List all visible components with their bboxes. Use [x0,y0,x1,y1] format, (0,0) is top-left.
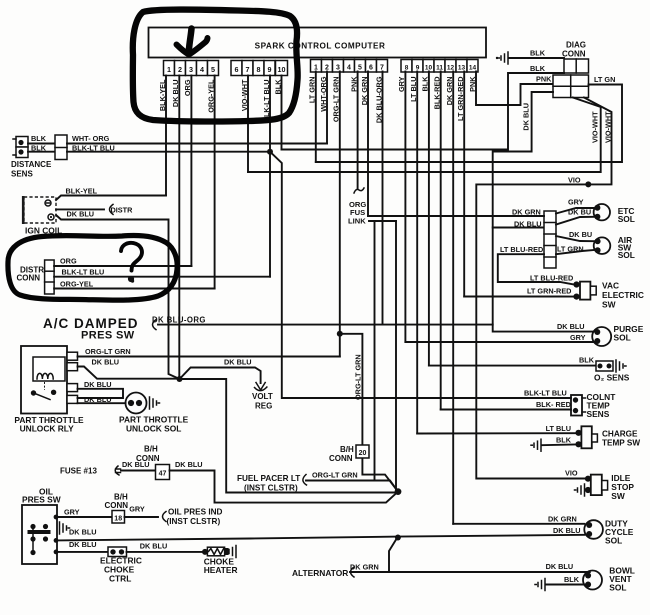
svg-text:DK GRN: DK GRN [350,563,379,572]
svg-text:DK BLU: DK BLU [84,380,112,389]
svg-text:DK BLU: DK BLU [69,540,97,549]
connector A pins 1-10 [164,61,175,76]
svg-text:7: 7 [380,64,384,71]
svg-text:10: 10 [425,64,433,71]
distance sensor connector [16,137,28,148]
svg-text:1: 1 [167,65,171,74]
svg-text:GRY: GRY [570,333,586,342]
node DK BLU junction [177,376,183,382]
svg-text:BLK: BLK [31,134,47,143]
svg-text:BLK: BLK [556,436,572,445]
wire VIO-WHT 1 [248,98,601,173]
svg-text:LT BLU: LT BLU [546,424,571,433]
wire BLK bowl [535,579,545,591]
svg-text:(INST CLSTR): (INST CLSTR) [244,484,298,493]
wire pin B11 BLK-RED [440,72,442,410]
svg-text:ORG-YEL: ORG-YEL [60,279,94,288]
wire DK BLU to volt reg [180,368,261,384]
PURGE solenoid [592,327,611,346]
svg-text:CONN: CONN [17,274,41,283]
wire pin B9 LT BLU [416,72,418,434]
svg-text:OIL PRES IND: OIL PRES IND [168,508,223,517]
B/H conn 18 [112,511,125,524]
svg-text:GRY: GRY [129,505,145,514]
svg-text:ORG-LT GRN: ORG-LT GRN [312,471,358,480]
svg-text:3: 3 [189,65,193,74]
wire pin B13 LT GRN-RED [463,72,465,297]
wire BLK distance sens 2 [28,151,55,153]
svg-text:REG: REG [255,402,272,411]
svg-text:GRY: GRY [64,508,80,517]
svg-text:BLK: BLK [579,356,595,365]
wire DK BLU relay loop [78,389,124,398]
node VIO junction [585,181,591,187]
svg-text:SW: SW [602,300,616,310]
svg-text:8: 8 [257,65,261,74]
wire pin A1 BLK-YEL [165,76,167,196]
svg-text:VIO-WHT: VIO-WHT [604,111,613,143]
ground at diag BLK [498,52,508,64]
svg-text:ALTERNATOR: ALTERNATOR [292,568,348,578]
svg-text:SOL: SOL [618,250,635,260]
svg-text:HEATER: HEATER [204,565,238,575]
svg-text:BLK: BLK [564,575,580,584]
wire DK BLU oil pres long [54,538,59,543]
wire LT GRN-RED pin B13 to vac sw [464,296,574,298]
svg-text:TEMP SW: TEMP SW [602,439,640,448]
svg-text:DK BLU: DK BLU [522,103,531,131]
svg-text:UNLOCK SOL: UNLOCK SOL [126,424,181,434]
wire DK BLU oil pres to choke [54,550,59,555]
wire WHT-ORG [67,143,327,145]
wire BLK-YEL ign coil [56,196,166,201]
node fuel pacer junction [395,488,402,495]
wire ORG-LT GRN fuel pacer [306,480,375,482]
node ORG-LT GRN junction [337,331,343,337]
svg-text:SENS: SENS [587,409,610,419]
svg-text:DK BU: DK BU [569,230,592,239]
svg-text:DK GRN: DK GRN [548,515,577,524]
svg-text:SOL: SOL [618,214,635,224]
svg-text:LT GRN: LT GRN [557,245,584,254]
svg-text:BLK-YEL: BLK-YEL [66,187,98,196]
svg-text:DK BLU: DK BLU [546,562,574,571]
svg-text:47: 47 [159,471,167,478]
svg-text:12: 12 [447,64,455,71]
svg-text:B/H: B/H [340,445,354,454]
wire pin A2 DK BLU [178,76,180,380]
relay switch contacts [31,390,36,395]
part throttle unlock solenoid [126,393,147,414]
svg-text:UNLOCK RLY: UNLOCK RLY [20,424,75,434]
svg-text:DK BLU: DK BLU [175,460,203,469]
wire pin B10 BLK [428,72,430,366]
svg-text:PNK: PNK [536,75,552,84]
wire DK BU air [556,236,594,241]
svg-text:LINK: LINK [348,217,366,226]
svg-text:10: 10 [278,65,286,74]
svg-text:BLK-LT BLU: BLK-LT BLU [524,389,567,398]
svg-text:BLK: BLK [530,64,546,73]
wire pin B8 GRY [404,72,406,343]
wire pin B1 LT GRN [315,72,317,163]
svg-text:LT BLU-RED: LT BLU-RED [530,274,573,283]
svg-text:SOL: SOL [605,536,622,546]
wire DK BLU oil to duty cycle [398,535,585,537]
wire GRY to oil pres ind [125,516,159,518]
svg-text:DK BLU: DK BLU [67,210,95,219]
svg-text:CONN: CONN [329,454,353,463]
svg-text:DK BLU: DK BLU [224,358,252,367]
svg-text:8: 8 [405,64,409,71]
wire BLK to diag [509,57,564,59]
svg-text:ORG-LT GRN: ORG-LT GRN [85,347,131,356]
svg-text:VAC: VAC [602,281,619,291]
wire pin B12 DK GRN [452,72,454,524]
svg-text:DK GRN: DK GRN [512,208,541,217]
svg-text:BLK: BLK [31,143,47,152]
svg-text:ELECTRIC: ELECTRIC [602,290,644,300]
svg-text:3: 3 [336,64,340,71]
ETC solenoid [594,204,610,220]
wire BLK charge [531,439,541,451]
wire pin B5 PNK fusible link [357,72,359,189]
part throttle unlock relay [21,346,67,414]
svg-text:9: 9 [268,65,272,74]
wire BLK-LT BLU [67,151,270,153]
wire ORG-YEL distr [54,288,215,290]
distributor connector DISTR CONN [45,260,55,294]
svg-text:VIO: VIO [565,469,578,478]
hand-drawn circle around DISTR CONN [8,236,177,301]
svg-text:SW: SW [611,491,625,501]
svg-text:SPARK CONTROL COMPUTER: SPARK CONTROL COMPUTER [255,42,386,51]
svg-text:SOL: SOL [609,583,626,593]
svg-text:1: 1 [314,64,318,71]
svg-text:14: 14 [469,64,477,71]
spark control computer U1 [149,28,487,58]
svg-text:PRES SW: PRES SW [22,495,61,505]
wire fus link [369,220,396,222]
svg-text:DK BLU-ORG: DK BLU-ORG [152,316,206,325]
wire BLK-LT BLU distr [54,276,270,278]
svg-text:9: 9 [416,64,420,71]
svg-text:BLK- RED: BLK- RED [536,400,571,409]
svg-text:DISTR: DISTR [111,206,134,215]
wire DK BLU from 47 [170,471,399,503]
wire GRY pin B8 to purge [405,341,595,343]
svg-text:18: 18 [114,515,122,522]
wire ORG-LT GRN relay to pin B3 [78,356,340,358]
svg-text:DK BLU: DK BLU [514,220,542,229]
connector B pins 1-14 [311,60,322,73]
svg-text:13: 13 [458,64,466,71]
svg-text:GRY: GRY [568,198,584,207]
svg-text:DK BLU: DK BLU [553,526,581,535]
wire LT BLU-RED loop [498,254,574,284]
hand-drawn arrow [189,29,192,51]
svg-text:CHARGE: CHARGE [602,430,638,439]
svg-text:SOL: SOL [614,333,631,343]
node BLK-LT BLU junction [267,149,273,155]
svg-text:6: 6 [369,64,373,71]
svg-text:CONN: CONN [105,501,129,510]
svg-text:CTRL: CTRL [109,574,131,584]
svg-text:DISTANCE: DISTANCE [11,160,52,169]
ignition coil [24,197,56,223]
wire DK BLU relay to unlock sol [78,402,126,404]
svg-text:BLK: BLK [530,49,546,58]
wire pin A9 BLK-LT BLU [269,76,271,277]
connector inline distance sens [55,135,67,160]
wire GRY oil pres [54,515,59,520]
wire ORG-LT GRN to B/H conn 20 [340,334,363,445]
wire BLK pin B10 net to diag [282,73,565,150]
svg-text:DK BLU: DK BLU [69,528,97,537]
wire GRY etc [556,208,594,214]
svg-text:CONN: CONN [136,454,160,463]
VAC ELECTRIC SW [573,281,579,287]
wire DK BLU diag [493,92,594,332]
svg-text:VIO: VIO [568,176,581,185]
wire pin A3 ORG [190,76,192,267]
wire LT GRN air [556,250,594,254]
wire pin A5 ORG-YEL [214,76,216,289]
svg-text:LT GN: LT GN [594,75,615,84]
svg-text:BLK-LT BLU: BLK-LT BLU [72,143,115,152]
svg-text:FUEL PACER LT: FUEL PACER LT [237,474,300,483]
wire BLK-LT BLU jog down [270,152,571,398]
diagnostic connector DIAG CONN [564,59,589,73]
wire BLK pin B10 to O2 [429,365,596,367]
node DK BLU/alternator junction [395,535,401,541]
svg-text:5: 5 [211,65,215,74]
svg-text:SENS: SENS [11,170,33,179]
svg-text:O₂ SENS: O₂ SENS [594,373,630,383]
svg-text:VIO-WHT: VIO-WHT [591,111,600,143]
svg-text:2: 2 [325,64,329,71]
wire DK GRN pin B12 [453,523,584,525]
svg-text:DK BLU: DK BLU [84,395,112,404]
wire DK BLU ign coil [56,215,180,379]
svg-text:DIAG: DIAG [566,41,586,50]
wire pin B3 ORG-LT GRN [339,72,341,357]
svg-text:5: 5 [358,64,362,71]
wire ORG distr [54,265,191,267]
wire BLK distance sens 1 [28,143,55,145]
svg-text:LT GRN-RED: LT GRN-RED [527,287,571,296]
wire DISTR stub [56,208,104,210]
svg-text:DK BU: DK BU [568,208,591,217]
wire LT BLU pin B9 [417,432,575,434]
volt reg arrow [255,383,267,391]
electric choke control [108,547,127,557]
wire DK GRN pin B6 to strip [368,215,544,217]
svg-text:7: 7 [246,65,250,74]
svg-text:11: 11 [436,64,443,71]
svg-text:2: 2 [178,65,182,74]
wire VIO-WHT 2 / VIO [476,98,611,479]
svg-text:ORG: ORG [60,257,77,266]
svg-text:LT BLU-RED: LT BLU-RED [500,245,543,254]
connector strip (ETC/AIR) [544,211,556,268]
choke heater resistor [202,549,208,555]
svg-text:B/H: B/H [144,445,158,454]
svg-text:DK BLU: DK BLU [140,542,168,551]
wire DK BLU to fuel pacer line [180,379,399,493]
wire pin A10 BLK [281,76,283,150]
wire pin B7 DK BLU-ORG [382,72,384,325]
hand-drawn question mark [121,243,142,271]
wire pin B6 DK GRN [367,72,369,217]
svg-text:WHT- ORG: WHT- ORG [72,134,110,143]
wire pin B2 WHT-ORG [326,72,328,144]
wire LT GN diag [316,85,622,163]
svg-text:PRES SW: PRES SW [81,330,135,342]
svg-text:DK BLU: DK BLU [92,358,120,367]
svg-text:20: 20 [359,450,367,457]
svg-text:BLK-LT BLU: BLK-LT BLU [62,267,105,276]
svg-text:(INST CLSTR): (INST CLSTR) [167,517,221,526]
wire DK BLU relay [78,367,180,379]
svg-text:4: 4 [347,64,351,71]
wire BLK-RED pin B11 [441,409,571,411]
svg-text:CONN: CONN [562,50,586,59]
wire DK BLU branch to connector strip [493,227,544,229]
AIR SW solenoid [594,237,611,254]
svg-text:VOLT: VOLT [252,392,273,401]
B/H conn 20 [356,445,369,458]
wire pin B14 PNK [476,72,553,106]
svg-text:6: 6 [235,65,239,74]
wire DK BLU to choke heater [127,551,206,553]
wire pin A7 VIO-WHT [247,76,249,173]
svg-text:FUSE #13: FUSE #13 [60,467,97,476]
wire branch to DK BLU line [389,537,398,572]
wire DK BU etc [556,217,594,225]
svg-text:DK BLU: DK BLU [557,322,585,331]
svg-text:4: 4 [200,65,204,74]
hand-drawn circle around connector A [133,10,298,122]
svg-text:ORG-LT GRN: ORG-LT GRN [354,354,363,400]
